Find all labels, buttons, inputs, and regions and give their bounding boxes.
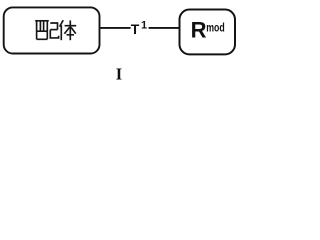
svg-text:I: I	[116, 65, 122, 84]
wire from ligand box to T1	[100, 27, 131, 29]
wire from T1 to Rmod box	[149, 27, 180, 29]
ligand box (配体)	[4, 7, 100, 53]
svg-text:T: T	[131, 21, 140, 37]
label 体 (drawn strokes)	[60, 20, 77, 40]
label 配 right part 己	[50, 23, 58, 38]
Rmod box	[180, 10, 236, 55]
label Rmod	[191, 18, 225, 43]
svg-text:mod: mod	[206, 21, 225, 35]
svg-text:R: R	[191, 18, 207, 43]
label 配 (drawn strokes)	[35, 21, 49, 40]
linker label T1	[131, 19, 147, 37]
svg-text:1: 1	[141, 19, 147, 31]
